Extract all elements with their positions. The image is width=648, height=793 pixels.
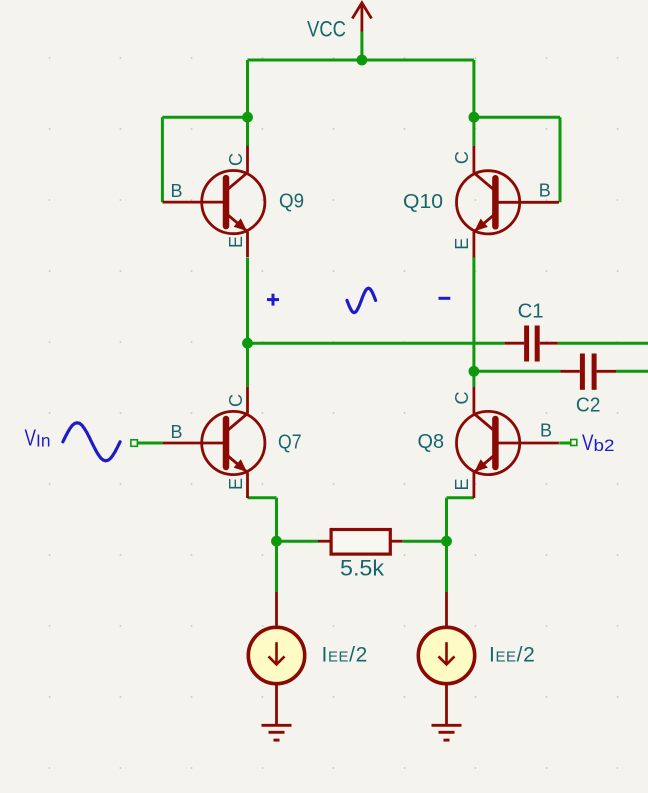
ground left xyxy=(262,725,292,740)
wire Q9 emitter to Q7 collector column xyxy=(246,258,249,387)
capacitor C1 xyxy=(505,326,558,362)
node output + junction xyxy=(242,338,253,349)
node VCC junction xyxy=(357,55,368,66)
svg-text:E: E xyxy=(452,238,472,250)
power symbol VCC xyxy=(352,3,371,32)
input sine wave graphic xyxy=(63,423,120,461)
svg-text:C: C xyxy=(452,392,472,405)
transistor Q8 (mirrored) xyxy=(457,387,559,498)
wire Q8 base to Vb2 xyxy=(559,442,571,445)
wire Vin to Q7 base xyxy=(137,442,162,445)
wire top rail xyxy=(248,59,474,62)
wire Q9 base feedback vertical xyxy=(161,117,164,202)
transistor Q9 xyxy=(163,146,265,257)
transistor Q7 xyxy=(163,387,265,498)
capacitor C2 xyxy=(560,354,616,390)
node right emitter junction xyxy=(441,536,452,547)
svg-text:C: C xyxy=(226,394,246,407)
ground right xyxy=(432,725,462,740)
resistor R 5.5k xyxy=(318,530,402,555)
transistor Q10 (mirrored) xyxy=(457,146,559,257)
current source IEE/2 left xyxy=(275,592,278,725)
svg-text:5.5k: 5.5k xyxy=(340,556,385,581)
svg-text:VCC: VCC xyxy=(307,17,346,42)
wire right drop to Q10 collector xyxy=(472,60,475,146)
no-connect square at Vin wire end xyxy=(131,440,138,447)
node Q9 collector-base junction xyxy=(242,112,253,123)
wire left drop to Q9 collector xyxy=(246,60,249,146)
wire Q10 emitter to Q8 collector column xyxy=(472,257,475,387)
node Q10 collector-base junction xyxy=(469,112,480,123)
svg-text:B: B xyxy=(171,422,183,442)
plus sign (blue) xyxy=(267,294,279,306)
wire Q10 base feedback vertical xyxy=(559,117,562,202)
wire Q7 emitter down to resistor rail xyxy=(275,498,278,592)
grid dots xyxy=(49,57,619,769)
node output - junction xyxy=(469,366,480,377)
output sine wave graphic xyxy=(347,288,376,312)
svg-text:C: C xyxy=(226,153,246,166)
wire Q8 emitter down to resistor rail xyxy=(445,498,448,592)
wire mid rail to C1 xyxy=(248,342,505,345)
svg-text:B: B xyxy=(540,421,552,441)
svg-text:C: C xyxy=(452,151,472,164)
wire C2 to right edge xyxy=(616,370,648,373)
junction dots xyxy=(242,55,479,547)
wire Q7 emitter horizontal xyxy=(248,496,277,499)
wire Q10 base feedback horizontal xyxy=(474,116,560,119)
wire C1 to right edge xyxy=(558,342,648,345)
wire Q9 base feedback horizontal xyxy=(162,116,247,119)
wire resistor rail right xyxy=(402,540,446,543)
wire junction to C2 xyxy=(474,370,561,373)
svg-text:C1: C1 xyxy=(518,301,544,323)
svg-text:C2: C2 xyxy=(576,395,601,417)
svg-text:B: B xyxy=(539,181,551,201)
svg-text:B: B xyxy=(171,181,183,201)
svg-text:E: E xyxy=(226,478,246,490)
svg-text:Q9: Q9 xyxy=(279,191,304,213)
node left emitter junction xyxy=(271,536,282,547)
no-connect square at Vb2 wire end xyxy=(571,440,577,446)
wire Q8 emitter horizontal xyxy=(447,496,474,499)
wire resistor rail left xyxy=(277,540,319,543)
svg-text:Q7: Q7 xyxy=(278,432,302,454)
svg-text:Q10: Q10 xyxy=(403,191,443,213)
current source IEE/2 right xyxy=(445,592,448,725)
minus sign (blue) xyxy=(439,297,451,300)
wire VCC stem green xyxy=(360,32,363,61)
svg-text:E: E xyxy=(226,236,246,248)
svg-text:Q8: Q8 xyxy=(418,431,445,453)
svg-text:E: E xyxy=(452,478,472,490)
